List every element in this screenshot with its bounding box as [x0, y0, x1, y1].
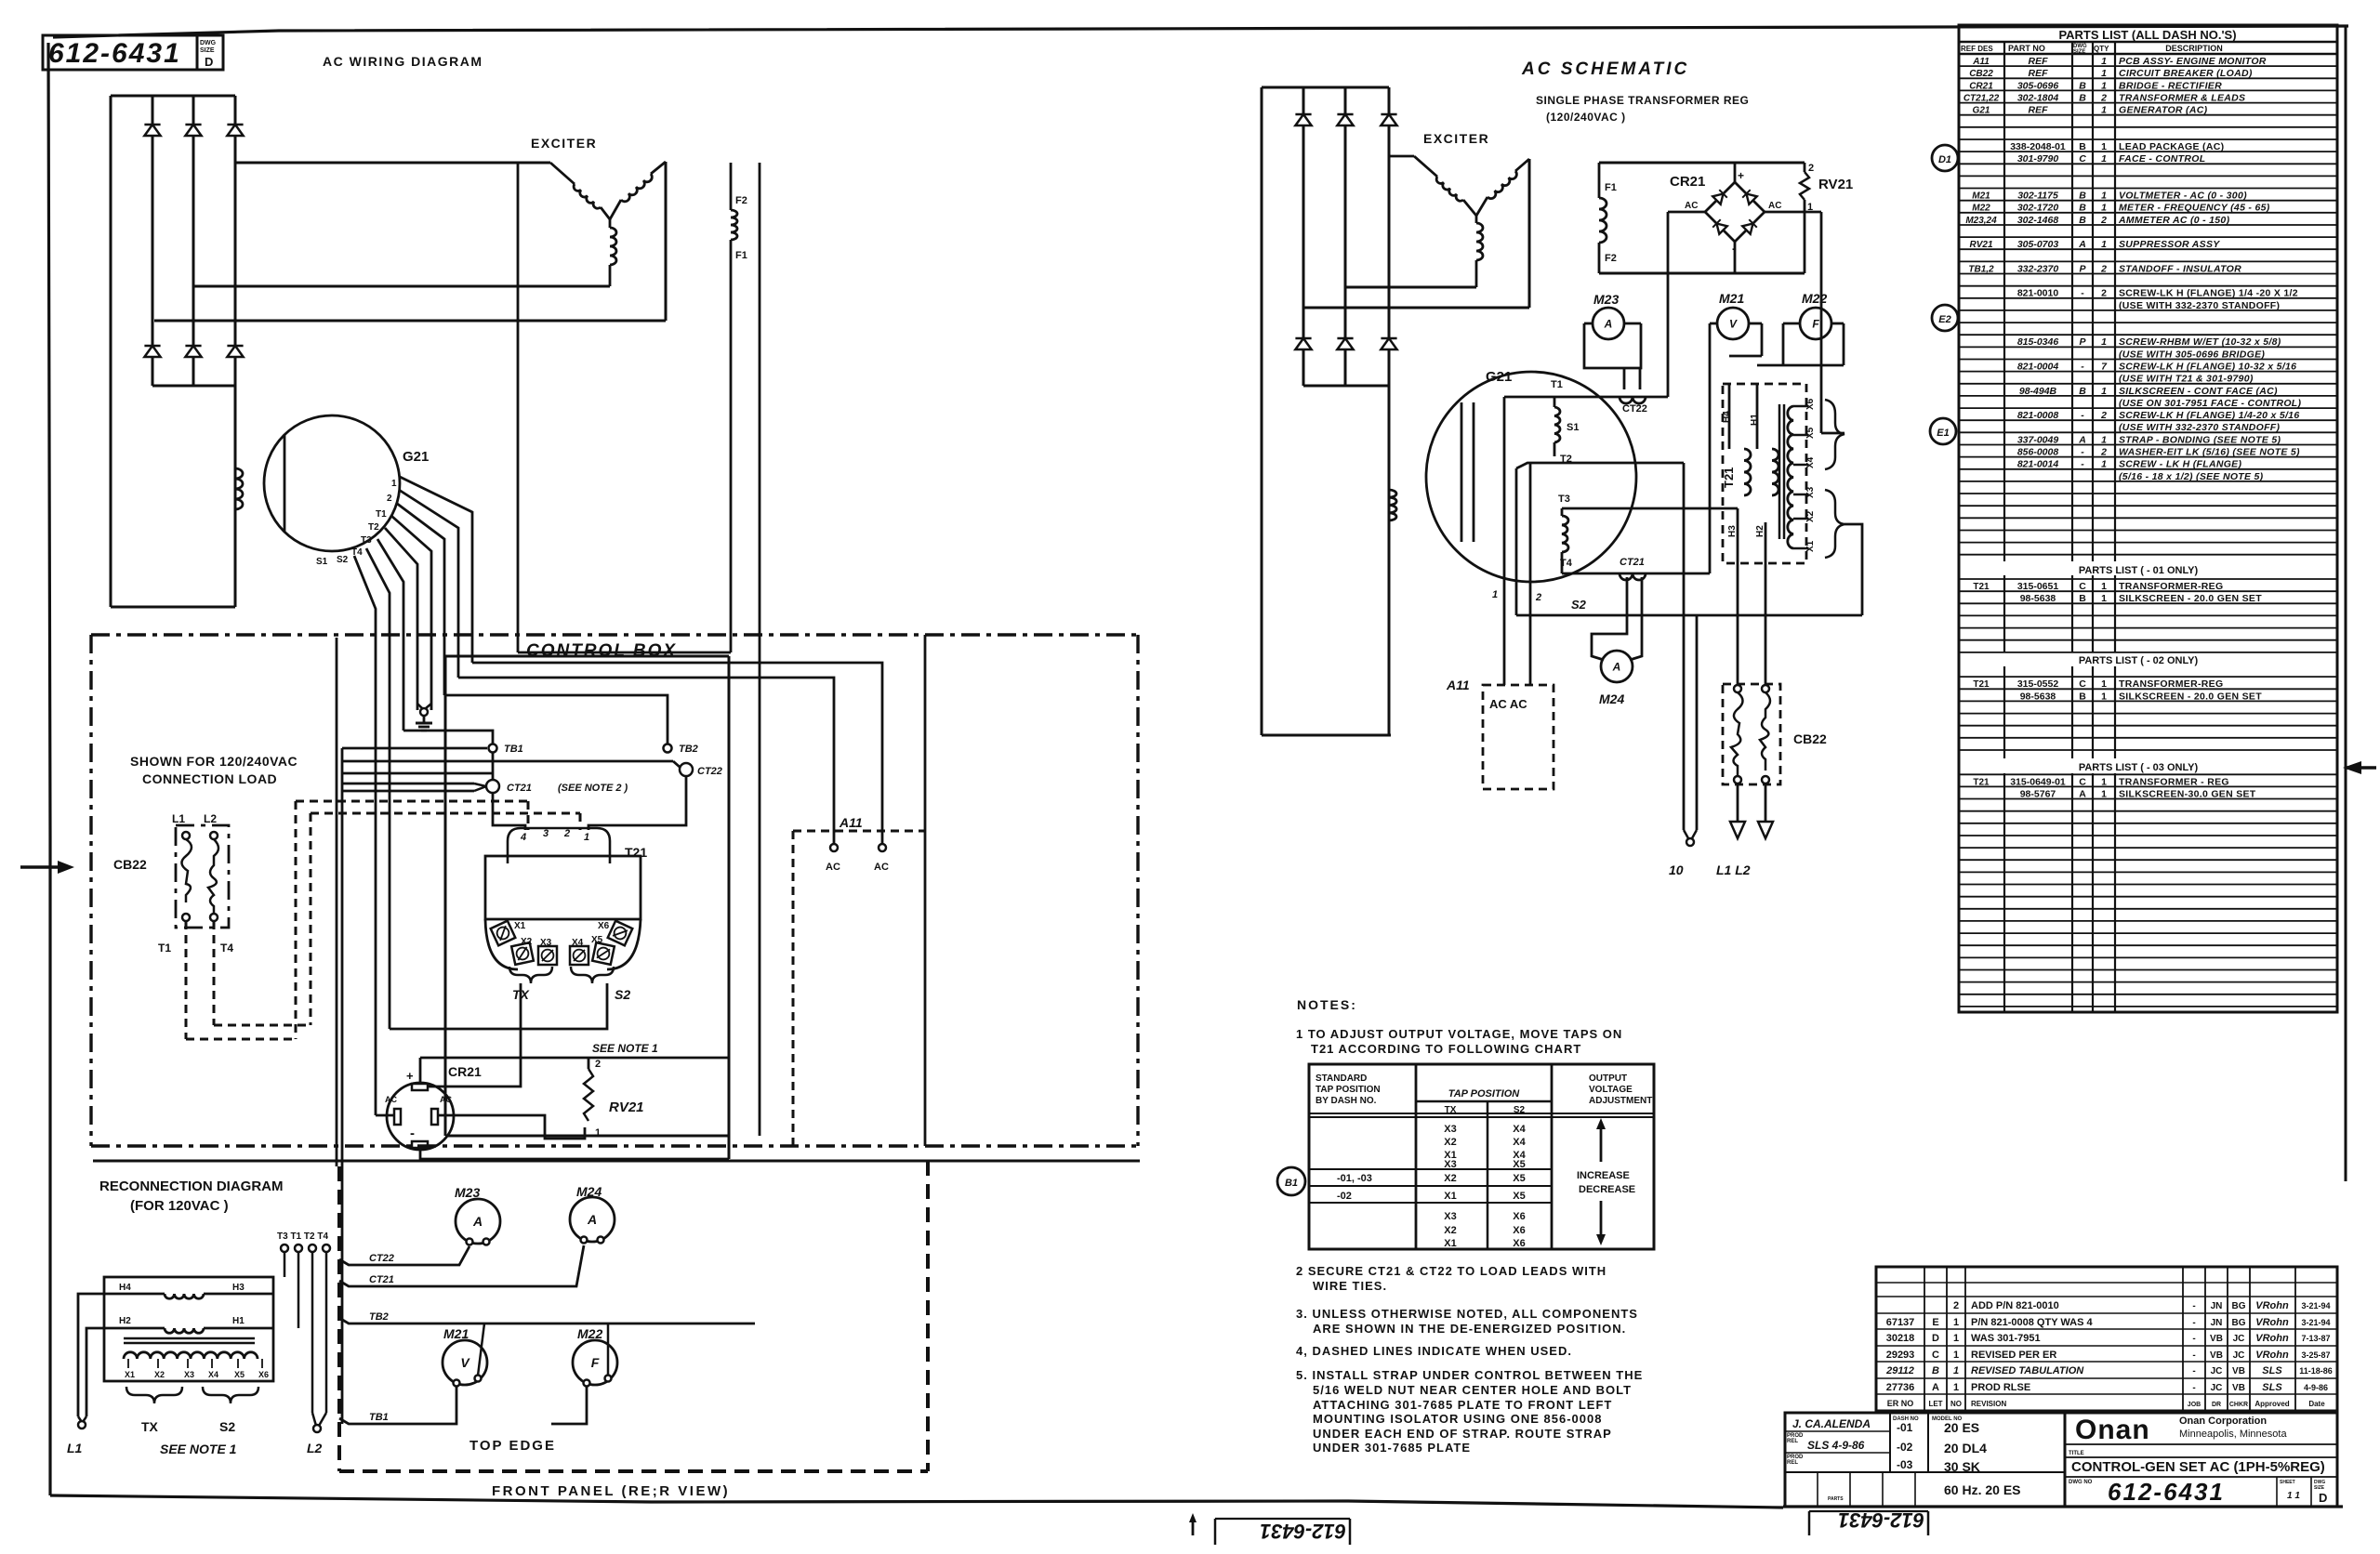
svg-text:SEE NOTE 1: SEE NOTE 1 [592, 1042, 658, 1055]
diode row 1 schematic [1295, 114, 1396, 125]
svg-text:VB: VB [2232, 1383, 2245, 1393]
svg-text:X5: X5 [591, 935, 603, 945]
svg-text:X4: X4 [572, 938, 584, 948]
svg-text:WIRE TIES.: WIRE TIES. [1313, 1279, 1387, 1293]
brace TX under taps [509, 967, 552, 1002]
wire generator lead S1 [354, 556, 376, 1115]
svg-text:B: B [2079, 92, 2086, 103]
svg-text:GENERATOR (AC): GENERATOR (AC) [2119, 105, 2208, 116]
svg-text:B: B [1932, 1365, 1939, 1376]
transformer T21 left diagram [485, 828, 647, 969]
svg-text:1: 1 [2101, 153, 2107, 165]
svg-text:821-0008: 821-0008 [2017, 410, 2059, 421]
svg-text:Onan: Onan [2075, 1415, 2150, 1445]
wire generator lead T3 [385, 528, 417, 710]
front panel top edge dashed box [339, 1161, 928, 1471]
wire L1 reconnection [67, 1294, 121, 1455]
svg-text:SIZE: SIZE [200, 47, 215, 54]
svg-text:CT22: CT22 [697, 766, 722, 777]
svg-text:REF DES: REF DES [1961, 45, 1993, 53]
svg-text:PARTS LIST (ALL DASH NO.'S): PARTS LIST (ALL DASH NO.'S) [2058, 28, 2236, 42]
svg-text:AC: AC [1768, 201, 1781, 211]
svg-text:-03: -03 [1897, 1458, 1913, 1471]
svg-text:M22: M22 [1972, 204, 1990, 214]
svg-text:B: B [2079, 191, 2086, 202]
svg-text:X2: X2 [521, 937, 533, 947]
svg-text:CB22: CB22 [1793, 731, 1827, 746]
ammeter M24 front panel [570, 1184, 615, 1244]
wire exciter lower bus schematic [1303, 307, 1529, 309]
svg-text:TX: TX [141, 1419, 159, 1434]
svg-text:-02: -02 [1337, 1191, 1352, 1202]
svg-text:-: - [2192, 1301, 2195, 1311]
svg-text:AC: AC [385, 1095, 397, 1104]
circuit breaker CB22 left diagram [113, 812, 233, 955]
svg-text:SILKSCREEN-30.0 GEN SET: SILKSCREEN-30.0 GEN SET [2119, 788, 2256, 799]
svg-text:X1: X1 [1444, 1191, 1456, 1202]
svg-text:2: 2 [595, 1059, 601, 1070]
T21 primary coils schematic [1729, 384, 1778, 563]
svg-text:X6: X6 [1805, 398, 1816, 410]
svg-text:TB2: TB2 [369, 1311, 389, 1323]
svg-text:60 Hz. 20 ES: 60 Hz. 20 ES [1944, 1482, 2021, 1497]
svg-text:CIRCUIT BREAKER (LOAD): CIRCUIT BREAKER (LOAD) [2119, 68, 2253, 79]
svg-text:SCREW-RHBM W/ET (10-32 x 5/8): SCREW-RHBM W/ET (10-32 x 5/8) [2119, 336, 2281, 348]
svg-text:DESCRIPTION: DESCRIPTION [2165, 44, 2223, 53]
balloon D1 [1932, 145, 1958, 171]
wire exciter top bus [235, 162, 550, 165]
svg-text:B: B [2079, 141, 2086, 152]
wire exciter mid bus [193, 285, 610, 288]
svg-text:S2: S2 [615, 987, 630, 1002]
ammeter M23 schematic [1584, 292, 1641, 389]
svg-text:A: A [2078, 239, 2086, 250]
svg-text:305-0696: 305-0696 [2017, 80, 2059, 91]
svg-text:FACE - CONTROL: FACE - CONTROL [2119, 153, 2205, 165]
label shown for 120/240vac connection load [130, 754, 297, 786]
svg-text:M23: M23 [1593, 292, 1619, 307]
svg-text:S2: S2 [1571, 598, 1587, 612]
svg-text:G21: G21 [403, 449, 429, 465]
svg-text:856-0008: 856-0008 [2017, 447, 2059, 458]
wire exciter mid bus schematic [1345, 286, 1476, 289]
svg-text:T21: T21 [1722, 468, 1736, 488]
svg-text:CT21: CT21 [507, 783, 532, 794]
svg-text:-: - [2192, 1366, 2195, 1376]
svg-text:UNDER EACH END OF STRAP. ROUTE: UNDER EACH END OF STRAP. ROUTE STRAP [1313, 1427, 1612, 1441]
svg-text:P: P [2079, 263, 2086, 274]
svg-text:SCREW-LK H (FLANGE) 10-32 x 5/: SCREW-LK H (FLANGE) 10-32 x 5/16 [2119, 362, 2296, 373]
note 1 text [1296, 1027, 1622, 1056]
svg-text:A11: A11 [1446, 678, 1470, 692]
svg-text:ARE SHOWN IN THE DE-ENERGIZED: ARE SHOWN IN THE DE-ENERGIZED POSITION. [1313, 1322, 1626, 1336]
svg-text:1: 1 [2101, 239, 2107, 250]
svg-text:-: - [2081, 410, 2084, 421]
svg-text:REVISED PER ER: REVISED PER ER [1971, 1350, 2056, 1361]
svg-text:X4: X4 [1805, 456, 1816, 468]
svg-text:(FOR 120VAC ): (FOR 120VAC ) [130, 1198, 229, 1214]
subheading single phase transformer reg [1536, 94, 1749, 124]
svg-text:MOUNTING ISOLATOR USING ONE 85: MOUNTING ISOLATOR USING ONE 856-0008 [1313, 1412, 1602, 1426]
svg-text:V: V [1729, 317, 1738, 330]
svg-text:338-2048-01: 338-2048-01 [2010, 141, 2066, 152]
right border arrow [2343, 761, 2376, 774]
svg-text:TB2: TB2 [679, 744, 698, 755]
svg-text:X2: X2 [154, 1370, 165, 1379]
rotor coil on rectifier right line [235, 468, 243, 509]
wire generator lead 2 [399, 490, 458, 678]
svg-text:H2: H2 [1755, 525, 1765, 537]
wire TX lead to CR21 plus [428, 983, 521, 1086]
svg-text:3: 3 [543, 828, 549, 839]
svg-text:TRANSFORMER-REG: TRANSFORMER-REG [2119, 678, 2223, 690]
wire lead T4 to TB1 [403, 731, 493, 744]
svg-text:29112: 29112 [1885, 1365, 1914, 1376]
wire exciter lower bus [154, 320, 666, 323]
svg-text:T21: T21 [625, 845, 647, 860]
svg-text:SCREW - LK H (FLANGE): SCREW - LK H (FLANGE) [2119, 459, 2241, 470]
svg-text:X3: X3 [1444, 1211, 1456, 1222]
wire CT22 front panel [339, 1246, 469, 1265]
parts list grid lines [1959, 42, 2337, 1012]
svg-text:OUTPUT: OUTPUT [1589, 1073, 1627, 1084]
svg-text:2: 2 [2100, 215, 2107, 226]
svg-text:Date: Date [2308, 1400, 2325, 1408]
generator rectifier box G21 left [111, 96, 235, 607]
rotor coil schematic [1389, 490, 1396, 520]
svg-text:AC: AC [826, 862, 840, 873]
svg-text:7-13-87: 7-13-87 [2301, 1334, 2330, 1343]
svg-text:E2: E2 [1938, 314, 1950, 325]
svg-text:M22: M22 [1802, 291, 1827, 306]
ground node from T2 T3 [416, 704, 432, 731]
svg-text:AMMETER AC (0 - 150): AMMETER AC (0 - 150) [2118, 215, 2230, 226]
svg-text:JC: JC [2211, 1383, 2223, 1393]
svg-text:SINGLE PHASE TRANSFORMER REG: SINGLE PHASE TRANSFORMER REG [1536, 94, 1749, 107]
svg-text:ER NO: ER NO [1887, 1399, 1914, 1408]
svg-text:3-25-87: 3-25-87 [2301, 1350, 2330, 1360]
svg-text:TAP POSITION: TAP POSITION [1316, 1085, 1381, 1095]
svg-text:315-0651: 315-0651 [2017, 581, 2059, 592]
svg-text:CT21: CT21 [369, 1274, 394, 1285]
wire CR21 minus bottom bus [420, 1148, 729, 1159]
svg-text:X4: X4 [1513, 1137, 1526, 1148]
wire tap group to S2 [1844, 524, 1862, 615]
svg-text:SLS 4-9-86: SLS 4-9-86 [1807, 1439, 1865, 1452]
svg-text:1: 1 [2101, 776, 2107, 787]
control box dashed outline [91, 635, 1138, 1146]
svg-text:STRAP - BONDING (SEE NOTE 5): STRAP - BONDING (SEE NOTE 5) [2119, 434, 2281, 445]
svg-text:L1: L1 [172, 812, 185, 825]
svg-text:CR21: CR21 [448, 1064, 482, 1079]
svg-text:X6: X6 [1513, 1238, 1525, 1249]
svg-text:98-5638: 98-5638 [2020, 691, 2056, 702]
svg-text:A: A [2079, 788, 2086, 799]
svg-text:DR: DR [2212, 1402, 2221, 1408]
svg-text:VRohn: VRohn [2255, 1350, 2289, 1361]
svg-text:METER - FREQUENCY (45 - 65): METER - FREQUENCY (45 - 65) [2119, 203, 2270, 214]
svg-text:X3: X3 [184, 1370, 194, 1379]
svg-text:X3: X3 [1805, 486, 1816, 498]
svg-text:302-1804: 302-1804 [2017, 92, 2059, 103]
brace S2 under taps [571, 967, 630, 1002]
svg-text:1 1: 1 1 [2287, 1491, 2300, 1501]
svg-text:X6: X6 [598, 921, 610, 931]
svg-text:1: 1 [2101, 581, 2107, 592]
svg-text:4-9-86: 4-9-86 [2304, 1383, 2328, 1392]
svg-text:2: 2 [563, 828, 570, 839]
svg-text:REVISION: REVISION [1971, 1400, 2006, 1408]
svg-text:2 SECURE CT21 & CT22 TO LOAD: 2 SECURE CT21 & CT22 TO LOAD LEADS WITH [1296, 1264, 1606, 1278]
svg-text:20 ES: 20 ES [1944, 1420, 1979, 1435]
generator G21 schematic circle [1426, 369, 1636, 582]
parts list -02 section [1973, 655, 2262, 702]
svg-text:2: 2 [1535, 592, 1541, 603]
svg-text:SLS: SLS [2262, 1365, 2282, 1376]
svg-text:B: B [2079, 386, 2086, 397]
svg-text:B: B [2079, 593, 2086, 604]
svg-text:X6: X6 [258, 1370, 269, 1379]
svg-text:L2: L2 [204, 812, 217, 825]
wire generator lead T2 [391, 516, 431, 710]
balloon E1 [1930, 418, 1956, 444]
svg-text:1: 1 [2101, 191, 2107, 202]
svg-text:(USE WITH 332-2370 STANDOFF): (USE WITH 332-2370 STANDOFF) [2119, 300, 2280, 311]
svg-text:AC: AC [874, 862, 889, 873]
svg-text:INCREASE: INCREASE [1577, 1170, 1630, 1181]
svg-text:VRohn: VRohn [2255, 1333, 2289, 1344]
svg-text:TITLE: TITLE [2069, 1451, 2084, 1456]
svg-text:PARTS LIST ( - 03 ONLY): PARTS LIST ( - 03 ONLY) [2079, 762, 2199, 773]
svg-text:301-9790: 301-9790 [2017, 153, 2059, 165]
svg-text:1: 1 [2101, 336, 2107, 348]
svg-text:1: 1 [2101, 56, 2107, 67]
wire to CT22 [342, 761, 681, 768]
svg-text:Approved: Approved [2254, 1400, 2289, 1408]
transformer T21 schematic dashed box [1722, 384, 1806, 563]
brace X3 X2 X1 schematic [1825, 490, 1844, 558]
svg-text:815-0346: 815-0346 [2017, 336, 2059, 348]
svg-text:X6: X6 [1513, 1211, 1525, 1222]
svg-text:BY DASH NO.: BY DASH NO. [1316, 1096, 1377, 1106]
svg-text:-: - [2081, 288, 2084, 299]
svg-text:1: 1 [2101, 434, 2107, 445]
svg-text:821-0014: 821-0014 [2017, 459, 2059, 470]
svg-text:2: 2 [2100, 410, 2107, 421]
svg-text:D: D [1932, 1333, 1939, 1344]
svg-text:S2: S2 [219, 1419, 235, 1434]
wire bridge AC right to taps [1765, 212, 1844, 433]
svg-text:A: A [2078, 434, 2086, 445]
PCB A11 schematic dashed box [1446, 678, 1554, 789]
svg-text:2: 2 [2100, 263, 2107, 274]
svg-text:-: - [2192, 1383, 2195, 1393]
wire generator lead 1 [400, 477, 472, 663]
svg-text:AC AC: AC AC [1489, 697, 1527, 711]
terminals T3 T1 T2 T4 reconnection [277, 1231, 330, 1413]
brace X6 X5 X4 schematic [1825, 400, 1844, 469]
svg-text:CONTROL BOX: CONTROL BOX [526, 641, 677, 661]
svg-text:X1: X1 [125, 1370, 135, 1379]
svg-text:VRohn: VRohn [2255, 1300, 2289, 1311]
svg-text:CT21: CT21 [1620, 557, 1645, 568]
svg-text:(USE WITH 305-0696 BRIDGE): (USE WITH 305-0696 BRIDGE) [2119, 349, 2265, 360]
svg-text:SEE NOTE 1: SEE NOTE 1 [160, 1442, 237, 1456]
svg-text:G21: G21 [1486, 369, 1512, 385]
svg-text:M23,24: M23,24 [1965, 216, 1997, 226]
svg-text:821-0010: 821-0010 [2017, 288, 2059, 299]
svg-text:(120/240VAC ): (120/240VAC ) [1546, 111, 1626, 124]
svg-text:C: C [2079, 581, 2086, 592]
svg-text:3-21-94: 3-21-94 [2301, 1318, 2330, 1327]
svg-text:VRohn: VRohn [2255, 1317, 2289, 1328]
svg-text:BRIDGE - RECTIFIER: BRIDGE - RECTIFIER [2119, 80, 2222, 91]
wire CT21 front panel [339, 1245, 584, 1286]
parts list rows all dash [1963, 56, 2302, 482]
svg-text:P: P [2079, 336, 2086, 348]
svg-text:PARTS LIST ( - 02 ONLY): PARTS LIST ( - 02 ONLY) [2079, 655, 2199, 666]
svg-text:REL: REL [1787, 1460, 1798, 1466]
svg-text:1: 1 [595, 1127, 601, 1139]
svg-text:T1: T1 [376, 509, 387, 520]
exciter winding schematic [1389, 131, 1529, 308]
svg-text:1: 1 [1492, 589, 1498, 600]
svg-text:F2: F2 [1605, 253, 1617, 264]
svg-text:ATTACHING 301-7685 PLATE TO FR: ATTACHING 301-7685 PLATE TO FRONT LEFT [1313, 1398, 1612, 1412]
svg-text:SHOWN FOR 120/240VAC: SHOWN FOR 120/240VAC [130, 754, 297, 769]
wire row to TB2 [342, 772, 493, 775]
svg-text:H4: H4 [119, 1283, 131, 1293]
svg-text:BG: BG [2232, 1301, 2246, 1311]
svg-text:315-0552: 315-0552 [2017, 678, 2059, 690]
svg-text:337-0049: 337-0049 [2017, 434, 2059, 445]
svg-text:29293: 29293 [1886, 1350, 1915, 1361]
parts list -01 section [1973, 565, 2262, 604]
svg-text:S2: S2 [337, 555, 349, 565]
svg-text:TRANSFORMER - REG: TRANSFORMER - REG [2119, 776, 2229, 787]
current transformer CT21 schematic [1620, 557, 1646, 580]
ammeter M23 front panel [455, 1185, 500, 1245]
current transformer CT22 schematic [1620, 397, 1647, 415]
svg-text:CB22: CB22 [1969, 69, 1993, 79]
svg-text:A: A [1612, 660, 1621, 673]
svg-text:305-0703: 305-0703 [2017, 239, 2059, 250]
wire CT22 to pin 1 [588, 776, 686, 830]
revision rows [1885, 1300, 2333, 1408]
svg-text:20 DL4: 20 DL4 [1944, 1441, 1987, 1455]
svg-text:SHEET: SHEET [2280, 1480, 2295, 1485]
svg-text:X5: X5 [1513, 1173, 1525, 1184]
svg-text:98-494B: 98-494B [2019, 386, 2057, 397]
solid divider right of A11 [924, 635, 927, 1146]
svg-text:4: 4 [520, 832, 526, 843]
frequency meter M22 front panel [573, 1326, 617, 1387]
svg-text:L1: L1 [67, 1441, 83, 1455]
svg-text:F: F [591, 1355, 600, 1370]
svg-text:LET: LET [1928, 1400, 1942, 1408]
svg-text:4, DASHED LINES INDICATE WHEN: 4, DASHED LINES INDICATE WHEN USED. [1296, 1344, 1572, 1358]
diode row 2 schematic [1295, 338, 1396, 349]
svg-text:X2: X2 [1444, 1137, 1456, 1148]
svg-text:EXCITER: EXCITER [531, 136, 597, 151]
drawing number box 612-6431 [43, 35, 223, 70]
svg-text:CT22: CT22 [369, 1253, 394, 1264]
svg-text:X2: X2 [1805, 510, 1816, 522]
field box schematic F1 F2 [1599, 163, 1805, 273]
svg-text:G21: G21 [1973, 106, 1990, 116]
frequency meter M22 schematic [1757, 291, 1844, 365]
svg-text:T21: T21 [1973, 582, 1990, 592]
svg-text:BG: BG [2232, 1318, 2246, 1328]
svg-text:JN: JN [2211, 1318, 2223, 1328]
wire CT21 to pin 4 [493, 793, 525, 830]
svg-text:PROD RLSE: PROD RLSE [1971, 1382, 2030, 1393]
svg-text:A11: A11 [1972, 57, 1990, 67]
svg-text:CT22: CT22 [1622, 403, 1647, 415]
wire T4 row to M21 tap [1562, 573, 1710, 575]
svg-text:RV21: RV21 [609, 1100, 644, 1115]
svg-text:M21: M21 [1972, 191, 1990, 202]
svg-text:3-21-94: 3-21-94 [2301, 1301, 2330, 1310]
svg-text:LEAD PACKAGE (AC): LEAD PACKAGE (AC) [2119, 141, 2224, 152]
svg-text:VOLTAGE: VOLTAGE [1589, 1085, 1633, 1095]
svg-text:EXCITER: EXCITER [1423, 131, 1489, 146]
stator winding S1 schematic [1504, 379, 1668, 465]
svg-text:5/16 WELD NUT NEAR CENTER HOLE: 5/16 WELD NUT NEAR CENTER HOLE AND BOLT [1313, 1383, 1632, 1397]
svg-text:302-1720: 302-1720 [2017, 203, 2059, 214]
svg-text:TB1,2: TB1,2 [1968, 264, 1994, 274]
svg-text:30 SK: 30 SK [1944, 1459, 1980, 1474]
svg-text:X5: X5 [1513, 1191, 1525, 1202]
svg-text:WASHER-EIT LK (5/16) (SEE NOTE: WASHER-EIT LK (5/16) (SEE NOTE 5) [2119, 447, 2300, 458]
svg-text:S1: S1 [316, 557, 328, 567]
svg-text:11-18-86: 11-18-86 [2299, 1366, 2333, 1376]
brace TX reconnection [126, 1387, 182, 1434]
wire lead T1 to TB2 [444, 695, 668, 744]
svg-text:QTY: QTY [2094, 45, 2109, 53]
svg-text:1: 1 [2101, 68, 2107, 79]
svg-text:J. CA.ALENDA: J. CA.ALENDA [1792, 1417, 1871, 1430]
svg-text:T1: T1 [158, 942, 171, 955]
svg-text:JC: JC [2211, 1366, 2223, 1376]
parts list -03 section [1973, 762, 2255, 799]
wire TB2 front panel [339, 1311, 755, 1376]
svg-text:+: + [406, 1069, 414, 1083]
svg-text:F2: F2 [735, 195, 747, 206]
svg-text:302-1468: 302-1468 [2017, 215, 2059, 226]
svg-text:1: 1 [2101, 80, 2107, 91]
svg-text:D: D [2319, 1491, 2327, 1505]
front panel left vertical [336, 638, 338, 1166]
svg-text:3. UNLESS OTHERWISE NOTED, ALL: 3. UNLESS OTHERWISE NOTED, ALL COMPONENT… [1296, 1307, 1638, 1321]
voltmeter M21 schematic [1710, 291, 1762, 573]
svg-text:2: 2 [2101, 288, 2107, 299]
svg-text:1: 1 [1953, 1382, 1959, 1393]
svg-text:2: 2 [1953, 1300, 1959, 1311]
svg-text:X4: X4 [208, 1370, 218, 1379]
svg-text:M22: M22 [577, 1326, 602, 1341]
output terminals L1 L2 schematic [1716, 784, 1773, 877]
revision table [1876, 1267, 2337, 1411]
svg-text:D1: D1 [1938, 154, 1951, 165]
svg-text:T21 ACCORDING TO FOLLOWING CHA: T21 ACCORDING TO FOLLOWING CHART [1311, 1042, 1581, 1056]
ammeter M24 schematic [1592, 577, 1642, 706]
bridge rectifier CR21 schematic [1670, 163, 1781, 273]
svg-text:T3: T3 [361, 535, 372, 546]
wire T2 row schematic [1516, 463, 1684, 615]
svg-text:TAP POSITION: TAP POSITION [1448, 1088, 1520, 1100]
T21 secondary coil schematic [1788, 398, 1816, 552]
